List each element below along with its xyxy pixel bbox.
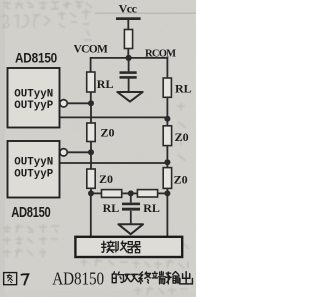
junction dot J5 [88,190,94,196]
wire Z0#4 to bottom node [166,188,168,195]
wire Z0#2 to junction [166,146,168,168]
bottom rail right segment [158,192,168,194]
wire Z0#1 to junction2 [90,142,92,153]
wire V2 to receiver [166,194,168,237]
wire cap2 to ground [130,211,132,225]
svg-text:AD8150: AD8150 [11,204,50,221]
capacitor C1 [120,71,137,78]
svg-text:RL: RL [103,201,120,215]
wire OUT lower U1 rail [60,116,168,118]
resistor RL2 [163,78,171,97]
pin circle U2 OUTyyP [60,149,67,156]
AD8150 U1 box [8,68,60,128]
junction dot J2 [164,116,170,122]
svg-text:RL: RL [97,77,114,91]
resistor RL4 horizontal [137,190,157,197]
wire V1 to receiver [90,194,92,237]
resistor RL3 horizontal [102,190,122,198]
resistor Z0 #2 [163,126,171,146]
wire RL2 down through junction [166,97,168,125]
paper background [0,0,196,297]
wire Z0#3 to bottom node [90,188,92,195]
junction dot J4 [164,159,170,165]
node VCOM rail [91,57,168,59]
caption 的双终端输出 [112,272,123,283]
svg-text:OUTyyP: OUTyyP [14,100,53,112]
svg-text:AD8150: AD8150 [52,268,104,288]
svg-text:VCOM: VCOM [74,44,108,56]
power bar Vcc [116,17,141,20]
resistor Z0 #4 [163,168,171,189]
svg-text:Z0: Z0 [174,173,188,187]
caption 7 [21,274,28,285]
svg-text:RL: RL [175,82,192,96]
wire cap1 to ground [128,79,130,93]
label receiver 接收器 [102,241,115,252]
wire OUT lower U2 rail [60,162,168,164]
wire RL1 to junction [90,92,92,104]
bottom rail left segment [91,192,102,194]
faint scan line [95,13,196,14]
ground GND1 [117,92,142,102]
svg-text:RL: RL [143,201,160,215]
wire pin U2 to junction [67,151,89,153]
junction dot J6 [164,190,170,196]
svg-text:OUTyyN: OUTyyN [14,157,53,169]
svg-text:OUTyyP: OUTyyP [14,169,53,181]
svg-text:AD8150: AD8150 [15,49,57,65]
AD8150 U2 box [8,141,60,198]
resistor RCOM [124,30,132,49]
wire cap1 top [128,58,130,72]
svg-text:Vcc: Vcc [119,1,138,15]
caption 图 [4,273,17,285]
pin circle U1 OUTyyP [60,100,67,107]
wire VCOM right drop [166,57,168,78]
wire VCOM left drop [90,57,92,72]
svg-text:Z0: Z0 [101,126,115,140]
capacitor C2 [122,203,140,211]
wire pin U1 to junction [67,102,89,104]
wire V1 junction to Z0 [90,103,92,123]
wire RCOM resistor to rail [127,49,129,59]
junction dot VCOM node [126,55,132,61]
wire Vcc stub [127,20,129,30]
receiver box [75,237,182,257]
bottom rail mid segment [122,192,138,194]
ground GND2 [118,224,143,234]
wire cap2 top [130,193,132,202]
resistor RL1 [87,72,95,92]
wire V1 junction2 down [90,152,92,169]
junction dot J3 [88,149,94,155]
resistor Z0 #1 [87,123,95,142]
svg-text:OUTyyN: OUTyyN [14,88,53,100]
junction dot J1 [88,100,94,106]
svg-text:Z0: Z0 [175,130,189,144]
svg-text:RCOM: RCOM [145,48,176,59]
junction dot J7 [128,190,134,196]
svg-text:Z0: Z0 [99,172,113,186]
resistor Z0 #3 [87,169,95,188]
